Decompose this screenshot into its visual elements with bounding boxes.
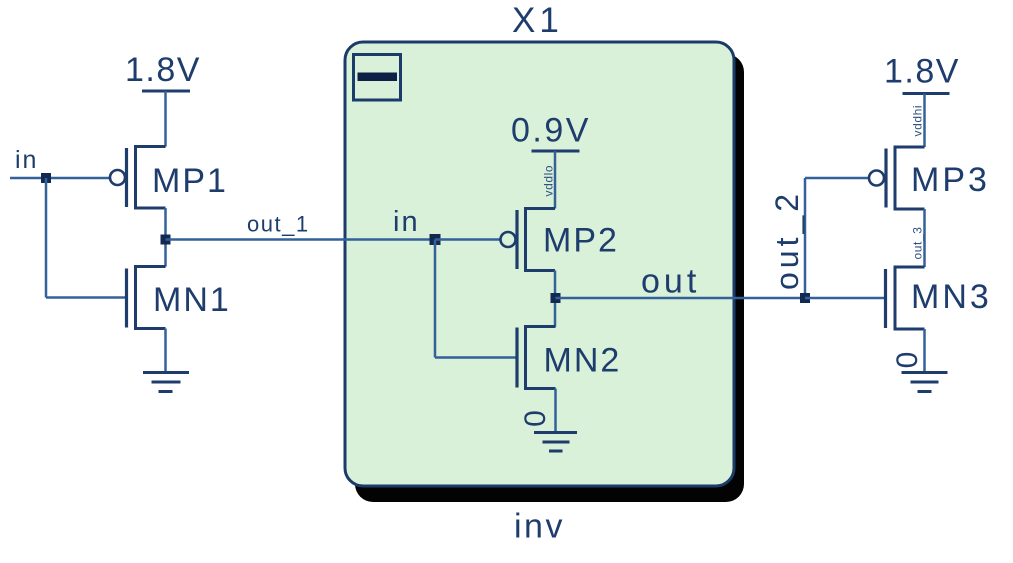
transistor MN2 (517, 327, 556, 389)
ground right (902, 373, 948, 392)
svg-text:out_1: out_1 (247, 212, 310, 237)
supply 1.8V left bar (142, 90, 190, 93)
wire in to MP2 gate (435, 238, 501, 241)
svg-text:1.8V: 1.8V (125, 51, 201, 89)
node out_2 junction (800, 293, 810, 303)
svg-text:0: 0 (519, 410, 552, 427)
wire in to MN2 gate vertical (434, 240, 437, 358)
wire in to MN1 gate vertical (45, 178, 48, 298)
svg-text:MN3: MN3 (911, 278, 992, 316)
svg-text:X1: X1 (512, 1, 563, 40)
svg-text:MN2: MN2 (544, 342, 622, 380)
wire net in (left stub) (10, 177, 110, 180)
ground left (143, 373, 189, 392)
svg-text:MP1: MP1 (152, 162, 228, 200)
wire in to MN2 gate horizontal (435, 356, 518, 359)
svg-text:MN1: MN1 (153, 281, 231, 319)
svg-text:MP2: MP2 (543, 222, 619, 260)
wire net out_2 horizontal (805, 177, 869, 180)
node out_1 junction (161, 235, 171, 245)
transistor MN1 (127, 267, 166, 329)
wire supply to MP1 source (164, 91, 167, 147)
ground middle (534, 433, 577, 452)
wire net out (556, 297, 806, 300)
node in (box) junction (430, 234, 441, 245)
transistor MP3 (869, 147, 925, 209)
wire MP1 drain to MN1 drain (164, 208, 167, 267)
svg-text:MP3: MP3 (911, 161, 990, 199)
wire MP3 drain to MN3 drain (923, 209, 926, 267)
svg-text:in: in (393, 206, 420, 238)
svg-text:out_2: out_2 (769, 190, 805, 290)
X1 symbol icon (354, 55, 401, 101)
svg-text:1.8V: 1.8V (884, 53, 960, 91)
svg-text:out_3: out_3 (911, 226, 925, 259)
wire out junction to MN3 gate (805, 297, 885, 300)
wire in to MN1 gate horizontal (46, 296, 125, 299)
wire MN1 source to ground (164, 329, 167, 373)
wire net out_2 vertical (804, 178, 807, 298)
svg-text:0: 0 (891, 352, 924, 369)
supply 0.9V bar (532, 150, 580, 153)
wire supply to MP2 source (554, 151, 557, 209)
wire MP2 drain to MN2 drain (554, 271, 557, 327)
svg-text:0.9V: 0.9V (511, 112, 591, 150)
subcircuit box X1 (345, 42, 734, 486)
wire MN2 source to ground (554, 389, 557, 433)
transistor MP2 (501, 209, 556, 271)
wire supply to MP3 source (923, 94, 926, 148)
supply 1.8V right bar (903, 92, 950, 95)
transistor MP1 (110, 147, 166, 209)
svg-text:in: in (15, 146, 38, 174)
svg-text:vddhi: vddhi (911, 105, 925, 137)
node out junction (551, 293, 561, 303)
wire MN3 source to ground (923, 329, 926, 373)
svg-text:vddlo: vddlo (542, 165, 556, 197)
svg-text:out: out (641, 263, 700, 301)
transistor MN3 (886, 267, 925, 329)
wire net out_1 (166, 238, 436, 241)
svg-text:inv: inv (514, 508, 565, 546)
subcircuit X1 shadow (355, 54, 744, 502)
node in junction (41, 173, 51, 183)
